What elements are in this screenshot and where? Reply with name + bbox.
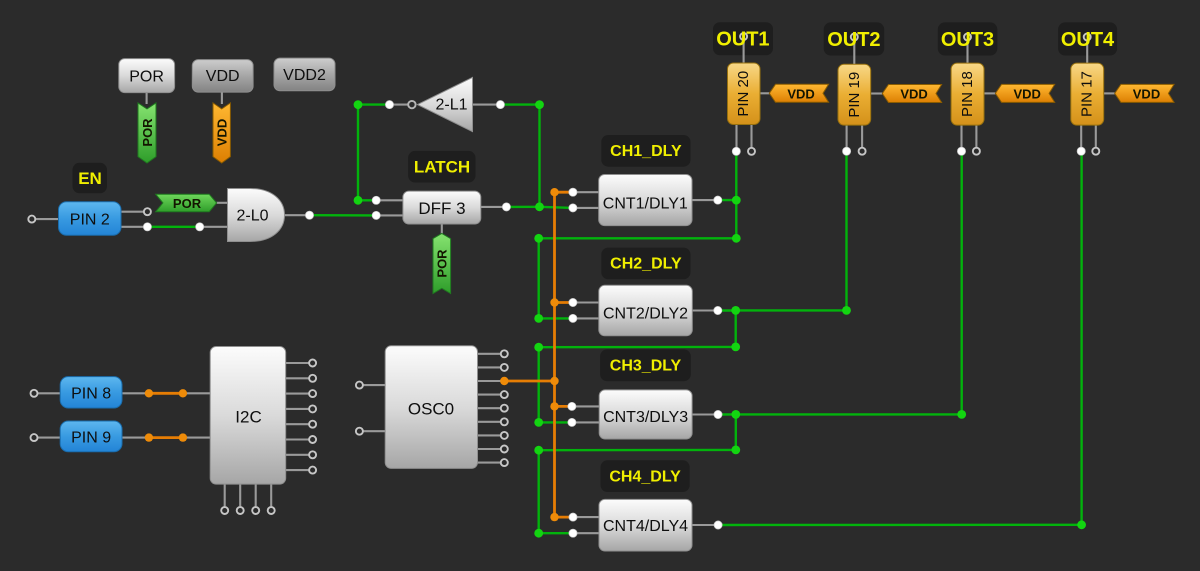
node CH2_DLY label text [610, 256, 682, 273]
wire feedback net: left vertical to DFF3 D input (green) [358, 105, 376, 201]
svg-text:PIN 9: PIN 9 [71, 429, 111, 446]
node CH1_DLY label box [601, 135, 690, 167]
node EN label text [78, 169, 102, 188]
wire PIN19 top port to OUT label [853, 37, 855, 65]
wire PIN8 output stub [122, 392, 147, 394]
svg-text:PIN 8: PIN 8 [71, 385, 111, 402]
svg-text:POR: POR [435, 249, 450, 278]
wire OSC0 output stub 5 [477, 407, 501, 409]
wire clock bus to CNT1 upper input (orange) [555, 191, 573, 194]
svg-text:PIN 20: PIN 20 [735, 71, 752, 117]
svg-text:OUT1: OUT1 [716, 29, 769, 51]
svg-text:2-L1: 2-L1 [435, 97, 467, 114]
svg-text:CNT2/DLY2: CNT2/DLY2 [603, 305, 688, 322]
flag VDD (input to PIN17 OE, pointing left) [1115, 84, 1174, 102]
pin PIN9 [60, 421, 122, 452]
orange net junction dots [145, 188, 559, 521]
green net junction dots [354, 100, 1086, 537]
wire CNT4 output net to PIN17 riser (green) [718, 151, 1082, 525]
wire OSC0 output stub 3 [477, 380, 501, 382]
wire PIN17 top port to OUT label [1086, 37, 1088, 64]
wire CNT3 output net down corner (green) [539, 414, 736, 450]
svg-text:POR: POR [173, 196, 202, 211]
inverter bubble 2-L1 [408, 101, 415, 108]
wire POR flag to 2-L0 upper input [217, 202, 228, 204]
wire OSC0 output stub 1 [477, 353, 501, 355]
counter CNT1/DLY1 [599, 175, 692, 226]
wire PIN19 OE port to VDD flag [871, 92, 883, 94]
wire I2C output stub 1 [285, 362, 309, 364]
svg-text:CNT3/DLY3: CNT3/DLY3 [603, 409, 688, 426]
wire OSC0 input stub 2 [363, 430, 386, 432]
wire I2C bottom port stub 4 [270, 484, 272, 507]
wire DFF3 lower input stub [376, 214, 403, 216]
node CH1_DLY label text [610, 143, 682, 160]
svg-text:OUT3: OUT3 [941, 29, 994, 51]
pin PIN8 [60, 377, 122, 408]
node CH4_DLY label box [601, 460, 690, 492]
wire I2C output stub 2 [285, 377, 309, 379]
wire VDD source block to VDD flag [221, 92, 223, 105]
wire I2C output stub 7 [285, 454, 309, 456]
svg-text:OSC0: OSC0 [408, 400, 454, 419]
flip-flop DFF3 [403, 191, 481, 224]
OUT label terminal circles [740, 33, 1091, 41]
wire CNT1 output to junction (green) [718, 199, 737, 201]
wire CNT1 output net vertical to PIN20 (green) [735, 151, 737, 238]
node OUT1 label box [713, 22, 773, 55]
flag POR (input to DFF3 nRST, pointing up) [433, 233, 451, 293]
connected terminal dots (white) [143, 101, 1085, 538]
wire PIN19 bottom-right port stub [861, 125, 863, 148]
wire DFF3 upper input stub [376, 199, 403, 201]
wire PIN20 bottom-right port stub [750, 124, 752, 148]
node OUT4 label text [1061, 29, 1115, 51]
svg-text:PIN 2: PIN 2 [70, 212, 110, 229]
node EN label box [73, 163, 108, 194]
svg-text:PIN 17: PIN 17 [1079, 71, 1096, 117]
pin PIN17 (OUT4) [1071, 63, 1104, 125]
wire DFF3 output stub [480, 206, 503, 208]
wire PIN20 OE port to VDD flag [760, 92, 769, 94]
svg-text:EN: EN [78, 169, 102, 188]
wire OSC0 clock bus vertical (orange) [553, 192, 556, 517]
wire 2-L1 output to right bus corner (green) [500, 103, 539, 105]
pin PIN2 [59, 202, 122, 236]
and-gate 2-L0 [228, 189, 285, 242]
wire PIN20 bottom-left port stub [735, 124, 737, 148]
svg-text:OUT4: OUT4 [1061, 29, 1115, 51]
wire DFF3 output bus vertical (green) [538, 105, 540, 207]
POR source block [119, 59, 175, 93]
wire 2-L0 output to DFF3 lower input (green) [310, 214, 377, 217]
wire CNT1 output net horizontal return (green) [539, 237, 737, 239]
wire CNT3/DLY3 upper input stub [573, 405, 600, 407]
node OUT4 label box [1058, 22, 1117, 55]
node CH3_DLY label box [600, 349, 691, 381]
svg-text:CNT4/DLY4: CNT4/DLY4 [603, 518, 688, 535]
svg-text:CH3_DLY: CH3_DLY [610, 358, 682, 375]
wire 2-L0 lower input stub [200, 226, 228, 228]
oscillator OSC0 [385, 346, 477, 469]
wire PIN19 bottom-left port stub [846, 125, 848, 148]
svg-text:VDD: VDD [1013, 87, 1040, 102]
wire CNT3/DLY3 lower input stub [573, 421, 600, 423]
wire OSC0 output stub 7 [477, 434, 501, 436]
wire DFF3 output to bus junction (green) [506, 206, 539, 208]
wire PIN2 left terminal stub [36, 218, 60, 220]
wire DFF3 bottom port to POR flag [441, 224, 443, 236]
counter CNT4/DLY4 [599, 499, 692, 551]
wire I2C output stub 5 [285, 423, 309, 425]
wire OSC0 output to clock bus (orange) [504, 380, 554, 383]
wire CNT1/DLY1 output stub [691, 199, 715, 201]
svg-text:VDD: VDD [787, 86, 814, 101]
svg-text:CH4_DLY: CH4_DLY [609, 469, 681, 486]
wire PIN2 output to 2-L0 lower input (green) [147, 226, 199, 228]
svg-text:PIN 19: PIN 19 [846, 72, 863, 118]
wire CNT1/DLY1 lower input stub [573, 207, 600, 209]
svg-text:CNT1/DLY1: CNT1/DLY1 [603, 196, 688, 213]
svg-text:POR: POR [129, 69, 164, 86]
wire CNT3/DLY3 output stub [691, 413, 714, 415]
wire I2C SDA input stub [186, 437, 211, 439]
wire CNT2 output net down corner (green) [539, 310, 736, 347]
wire clock bus to CNT2 upper input (orange) [555, 301, 573, 304]
svg-text:VDD: VDD [215, 119, 230, 146]
wire I2C output stub 6 [285, 438, 309, 440]
node OUT3 label text [941, 29, 994, 51]
inverter 2-L1 [418, 77, 473, 131]
node OUT2 label box [824, 22, 885, 55]
wire OSC0 output stub 2 [477, 366, 501, 368]
pin PIN18 (OUT3) [951, 63, 984, 125]
svg-text:I2C: I2C [235, 408, 261, 427]
wire PIN17 OE port to VDD flag [1104, 92, 1115, 94]
wire PIN18 OE port to VDD flag [984, 92, 995, 94]
pin PIN19 (OUT2) [838, 64, 871, 125]
svg-text:VDD: VDD [1133, 87, 1160, 102]
flag VDD (input to PIN19 OE, pointing left) [882, 85, 941, 103]
wire PIN9 left terminal stub [38, 437, 61, 439]
wire 2-L0 output stub [285, 214, 307, 216]
wire PIN2 lower output stub [121, 226, 147, 228]
wire 2-L1 output stub [473, 104, 498, 106]
wire OSC0 input stub 1 [363, 384, 386, 386]
wire CNT3 output net to PIN18 riser (green) [736, 151, 962, 414]
svg-text:PIN 18: PIN 18 [959, 71, 976, 117]
node OUT1 label text [716, 29, 769, 51]
wire CNT2 output to junction (green) [718, 309, 736, 311]
VDD2 source block [274, 58, 335, 91]
flag VDD (input to PIN18 OE, pointing left) [995, 84, 1054, 102]
node CH2_DLY label box [601, 248, 690, 280]
wire CNT3 output to junction (green) [718, 413, 736, 416]
wire CNT2/DLY2 upper input stub [573, 301, 600, 303]
wire PIN2 upper output stub [121, 211, 144, 213]
node CH4_DLY label text [609, 469, 681, 486]
wire PIN18 top port to OUT label [966, 37, 968, 64]
wire I2C SCL input stub [186, 392, 211, 394]
wire I2C output stub 4 [285, 408, 309, 410]
VDD source block [192, 60, 253, 93]
svg-text:2-L0: 2-L0 [236, 208, 268, 225]
wire PIN9 to I2C SDA (orange) [149, 436, 183, 439]
flag VDD (output of VDD source, pointing down) [213, 103, 230, 163]
node CH3_DLY label text [610, 358, 682, 375]
unconnected terminal circles (open) [28, 148, 1099, 514]
wire clock bus to CNT4 upper input (orange) [555, 516, 574, 519]
wire OSC0 output stub 8 [477, 448, 501, 450]
wire PIN17 bottom-right port stub [1095, 125, 1097, 148]
svg-text:OUT2: OUT2 [827, 29, 880, 51]
wire OSC0 output stub 6 [477, 421, 501, 423]
wire CNT2 output net down to CNT3 input (green) [539, 347, 572, 422]
flag VDD (input to PIN20 OE, pointing left) [769, 84, 828, 102]
wire POR source block to POR flag [146, 91, 148, 104]
wire I2C bottom port stub 1 [224, 484, 226, 507]
wire OSC0 output stub 9 [477, 462, 501, 464]
wire CNT1 output net down to CNT2 input (green) [539, 238, 573, 318]
wire clock bus to CNT3 upper input (orange) [555, 405, 572, 408]
wire OSC0 output stub 4 [477, 394, 501, 396]
wire CNT2/DLY2 lower input stub [573, 317, 600, 319]
wire CNT4/DLY4 output stub [691, 524, 715, 526]
wire CNT1/DLY1 upper input stub [573, 191, 600, 193]
wire I2C bottom port stub 3 [255, 484, 257, 507]
wire bus junction to CNT1 lower input (green) [540, 207, 573, 208]
node OUT3 label box [938, 22, 998, 55]
node LATCH label text [414, 158, 470, 177]
wire PIN18 bottom-left port stub [960, 125, 962, 148]
svg-text:VDD2: VDD2 [283, 67, 326, 84]
wire CNT4/DLY4 upper input stub [573, 516, 600, 518]
wire CNT2/DLY2 output stub [691, 309, 714, 311]
wire PIN20 top port to OUT label [743, 37, 745, 64]
flag POR (input to 2-L0, pointing right) [156, 194, 217, 212]
svg-text:DFF 3: DFF 3 [418, 199, 465, 218]
svg-text:LATCH: LATCH [414, 158, 470, 177]
svg-text:VDD: VDD [900, 87, 927, 102]
wire CNT3 output net down to CNT4 input (green) [539, 450, 573, 533]
wire 2-L1 input stub (bubble side) [392, 104, 409, 106]
node LATCH label box [408, 151, 475, 183]
wire CNT2 output net to PIN19 riser (green) [736, 151, 847, 310]
svg-text:CH1_DLY: CH1_DLY [610, 143, 682, 160]
flag POR (output of POR source, pointing down) [138, 103, 156, 163]
wire I2C bottom port stub 2 [239, 484, 241, 507]
svg-text:POR: POR [140, 118, 155, 147]
wire I2C output stub 8 [285, 469, 309, 471]
wire I2C output stub 3 [285, 393, 309, 395]
svg-text:VDD: VDD [206, 68, 240, 85]
node OUT2 label text [827, 29, 880, 51]
wire CNT4/DLY4 lower input stub [573, 532, 600, 534]
wire PIN17 bottom-left port stub [1080, 125, 1082, 148]
wire PIN9 output stub [122, 437, 147, 439]
wire PIN18 bottom-right port stub [975, 125, 977, 148]
I2C block [210, 347, 286, 485]
counter CNT2/DLY2 [599, 285, 693, 336]
wire PIN8 to I2C SCL (orange) [149, 392, 183, 395]
svg-text:CH2_DLY: CH2_DLY [610, 256, 682, 273]
counter CNT3/DLY3 [599, 390, 692, 439]
pin PIN20 (OUT1) [728, 63, 761, 125]
wire feedback net: 2-L1 output corner segment (green) [358, 103, 390, 105]
wire PIN8 left terminal stub [38, 392, 61, 394]
